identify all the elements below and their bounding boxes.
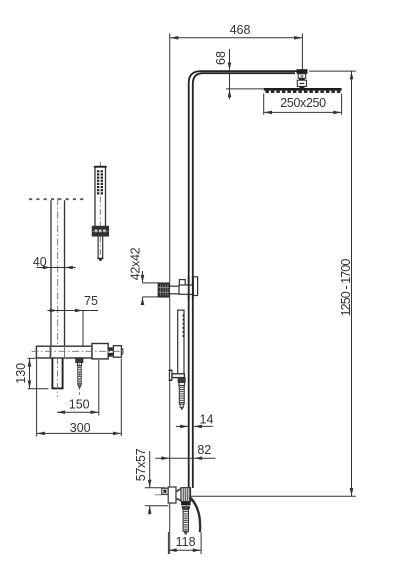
svg-text:68: 68 <box>214 51 228 65</box>
svg-text:1250 - 1700: 1250 - 1700 <box>339 259 353 317</box>
svg-text:40: 40 <box>33 255 47 269</box>
svg-text:150: 150 <box>69 397 90 411</box>
svg-text:75: 75 <box>84 294 98 308</box>
svg-text:468: 468 <box>230 23 251 37</box>
svg-text:300: 300 <box>70 421 91 435</box>
svg-text:130: 130 <box>14 363 28 384</box>
svg-text:42x42: 42x42 <box>128 247 142 280</box>
svg-text:82: 82 <box>197 443 211 457</box>
svg-text:118: 118 <box>176 535 196 549</box>
svg-text:250x250: 250x250 <box>280 96 326 110</box>
svg-text:14: 14 <box>200 412 214 426</box>
svg-text:57x57: 57x57 <box>134 448 148 481</box>
